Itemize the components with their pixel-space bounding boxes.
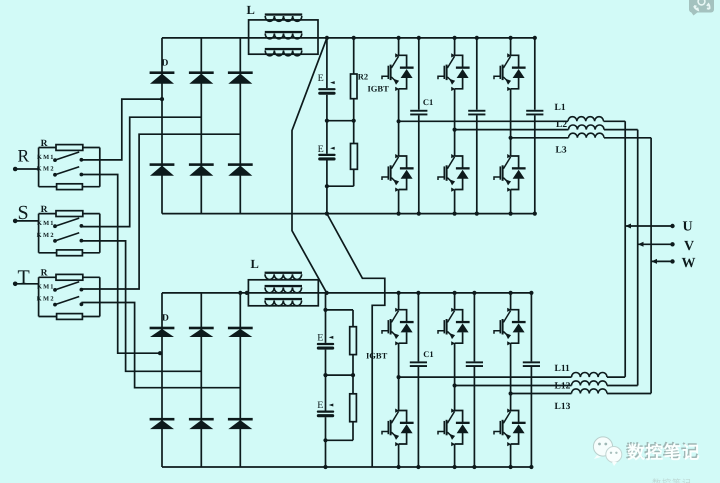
junction DC+ C1-2 (bottom) <box>472 291 476 295</box>
wire leg1 bottom (bottom) <box>398 444 400 467</box>
wire C1-3 upper (bottom) <box>530 293 532 362</box>
wire L11 to output bus <box>607 376 625 378</box>
junction DC- C1-3 (bottom) <box>529 465 533 469</box>
IGBT Q1H with diode (top inverter upper leg1) <box>382 53 414 91</box>
watermark WeChat logo bubbles <box>593 437 621 466</box>
wire tie0 E-R (bottom) <box>326 309 354 311</box>
wire DC- bus (bottom converter) <box>162 466 531 468</box>
junction DC+ bus leg3 (top) <box>509 36 513 40</box>
wire output bus W vertical <box>650 138 652 394</box>
wire R-branch upper (bottom) <box>352 310 354 327</box>
svg-text:L: L <box>247 3 255 17</box>
contactor block KM (R phase) <box>39 145 100 190</box>
wire L2 to output bus <box>604 129 638 131</box>
wire S-out2 to bottom bridge col2 <box>81 241 201 371</box>
svg-text:L: L <box>251 257 259 271</box>
wire top bridge column 1 <box>161 38 163 214</box>
choke winding row 2 (top L) <box>265 31 302 39</box>
junction DC- leg1 (bottom) <box>397 465 401 469</box>
wire T-out2 to bottom bridge col3 <box>81 303 240 388</box>
IGBT with diode (bottom inverter upper leg1) <box>382 308 414 346</box>
wire DC- link top-to-bottom converter <box>327 214 385 467</box>
wire DC+ link top-to-bottom converter <box>292 38 327 293</box>
terminal dot U <box>670 224 674 228</box>
wire output rail W (top) <box>511 137 569 139</box>
wire L13 to output bus <box>607 393 651 395</box>
junction DC+ C1-3 (bottom) <box>529 291 533 295</box>
wire C1-2 upper (bottom) <box>473 293 475 362</box>
electrolytic capacitor E (bottom lower) <box>317 404 334 418</box>
inductor L2 <box>569 125 605 130</box>
electrolytic capacitor E (bottom upper) <box>317 336 334 350</box>
input terminal R with wire <box>13 167 39 172</box>
svg-text:KM1: KM1 <box>37 220 54 227</box>
svg-text:R: R <box>41 139 48 149</box>
svg-text:W: W <box>682 256 696 271</box>
contactor switch KM1 (S-phase) <box>53 218 83 228</box>
svg-text:R: R <box>18 145 30 165</box>
wire leg2 to output rail (top) <box>454 89 456 130</box>
junction DC- bus leg1 (top) <box>397 212 401 216</box>
capacitor C1 leg2 (bottom) <box>466 361 483 367</box>
junction DC- C1-1 (top) <box>417 212 421 216</box>
wire R-branch upper (top) <box>353 38 355 74</box>
junction DC+ C1-1 (bottom) <box>416 291 420 295</box>
svg-text:S: S <box>18 202 29 224</box>
junction DC- bus leg2 (top) <box>453 212 457 216</box>
junction DC- leg2 (bottom) <box>453 465 457 469</box>
choke winding row 1 (bottom L) <box>265 272 302 280</box>
wire E-branch to lower cap (bottom) <box>325 375 327 410</box>
choke winding row 3 (bottom L) <box>265 298 302 306</box>
wire leg2 bottom (bottom) <box>454 444 456 467</box>
wire C1-1 lower (top) <box>418 115 420 213</box>
inductor L1 <box>568 117 604 122</box>
wire leg3 bottom (top) <box>510 190 512 214</box>
junction E-branch on DC- bus (top) <box>325 212 329 216</box>
IGBT Q2H with diode (top inverter upper leg2) <box>438 53 470 91</box>
wire U terminal <box>625 225 672 227</box>
svg-text:L1: L1 <box>555 103 566 113</box>
wire E-branch upper (top) <box>326 38 328 88</box>
electrolytic capacitor E (top lower) <box>318 147 335 161</box>
junction top bridge col1 input <box>160 97 164 101</box>
wire leg2 mid (bottom) <box>454 386 456 411</box>
wire output bus V vertical <box>637 130 639 386</box>
capacitor C1 leg3 (top) <box>526 110 543 116</box>
junction DC+ C1-2 (top) <box>475 36 479 40</box>
capacitor C1 leg1 (top) <box>410 110 427 116</box>
choke winding row 3 (top L) <box>265 48 302 56</box>
viewer toolbar icon (top right) <box>689 0 714 16</box>
svg-text:KM1: KM1 <box>37 154 54 161</box>
junction E-branch DC- (bottom) <box>323 465 327 469</box>
wire R-out1 to top bridge col1 <box>81 99 162 160</box>
svg-text:KM2: KM2 <box>37 166 54 173</box>
wire C1-2 lower (top) <box>476 115 478 213</box>
electrolytic capacitor E (top upper) <box>318 81 335 95</box>
wire leg1 bottom (top) <box>398 190 400 214</box>
contactor switch KM2 (S-phase) <box>53 233 83 243</box>
wire leg1 to output rail (top) <box>398 89 400 122</box>
wire leg1 top (bottom inverter) <box>398 293 400 310</box>
IGBT Q3H with diode (top inverter upper leg3) <box>494 53 526 91</box>
diode D2 top bridge upper col2 <box>189 71 214 83</box>
inductor L box (top) <box>249 20 318 54</box>
wire top DC+ bus (bottom converter) <box>162 292 531 294</box>
wire leg2 mid (top) <box>454 130 456 156</box>
choke winding row 2 (bottom L) <box>265 285 302 293</box>
wire leg3 top (bottom inverter) <box>510 293 512 310</box>
wire bottom bridge column 2 <box>200 293 202 467</box>
diode D1 top bridge upper col1 <box>150 71 175 83</box>
wire top bridge column 2 <box>200 38 202 214</box>
svg-text:KM1: KM1 <box>37 284 54 291</box>
capacitor C1 leg1 (bottom) <box>410 361 427 367</box>
wire leg3 to output rail (top) <box>510 89 512 138</box>
wire R-branch bottom (bottom) <box>352 422 354 441</box>
inductor L11 <box>572 373 608 378</box>
svg-text:E: E <box>318 144 324 155</box>
wire E-branch to lower cap (top) <box>326 121 328 154</box>
wire output bus U vertical <box>624 121 626 377</box>
diode D6 top bridge lower col3 <box>228 163 253 176</box>
junction DC+ bus leg2 (bottom) <box>453 291 457 295</box>
junction DC- C1-2 (top) <box>475 212 479 216</box>
svg-text:L2: L2 <box>556 120 567 130</box>
contactor block KM (S phase) <box>39 211 100 256</box>
wire T-out1 to top bridge col3 <box>81 134 240 289</box>
wire R-branch mid (top) <box>353 99 355 144</box>
wire leg2 top (top inverter) <box>454 38 456 55</box>
wire C1-3 lower (top) <box>534 115 536 213</box>
junction choke input DC+ (bottom) <box>245 291 249 295</box>
wire top bridge column 3 <box>239 38 241 214</box>
svg-text:R2: R2 <box>358 72 368 82</box>
svg-text:R: R <box>41 205 48 215</box>
resistor R2 (bottom upper) <box>350 327 357 355</box>
wire leg1 to rail (bottom) <box>398 343 400 377</box>
wire C1-2 lower (bottom) <box>473 367 475 467</box>
junction DC- bus leg3 (top) <box>509 212 513 216</box>
wire C1-1 upper (top) <box>418 38 420 110</box>
wire leg1 top (top inverter) <box>398 38 400 55</box>
wire E-branch mid (top) <box>326 95 328 121</box>
svg-text:R: R <box>41 269 48 279</box>
junction leg2/rail (bottom) <box>453 383 457 387</box>
inductor L13 <box>572 389 608 394</box>
svg-text:U: U <box>683 220 693 235</box>
wire output rail U (bottom) <box>399 376 572 378</box>
svg-text:L12: L12 <box>555 382 571 392</box>
junction leg3/rail (top) <box>509 136 513 140</box>
wire E-branch bottom (bottom) <box>325 417 327 467</box>
diode bottom bridge upper col3 <box>228 327 253 337</box>
junction leg2/rail (top) <box>453 128 457 132</box>
wire leg2 to rail (bottom) <box>454 343 456 385</box>
wire DC- bus (top converter) <box>162 213 535 215</box>
junction E/R tie2 (bottom) <box>323 438 327 442</box>
wire W terminal <box>651 260 672 262</box>
node U tap <box>625 224 631 229</box>
svg-text:数控笔记: 数控笔记 <box>627 443 700 463</box>
junction DC+ bus leg2 (top) <box>453 36 457 40</box>
junction bottom bridge col1 input <box>158 351 162 355</box>
node V tap <box>638 242 644 247</box>
IGBT with diode (bottom inverter lower leg2) <box>438 409 470 447</box>
svg-text:数控笔记: 数控笔记 <box>652 478 692 483</box>
contactor block KM (T phase) <box>39 274 100 319</box>
junction DC- C1-3 (top) <box>533 212 537 216</box>
wire L12 to output bus <box>607 385 638 387</box>
diode D4 top bridge lower col1 <box>150 163 175 176</box>
resistor R2 (top upper) <box>351 74 358 99</box>
junction DC+ bus leg3 (bottom) <box>509 291 513 295</box>
wire top DC+ bus (top converter) <box>162 37 535 39</box>
resistor (top lower bleeder) <box>351 144 358 170</box>
IGBT with diode (bottom inverter upper leg2) <box>438 308 470 346</box>
node W tap <box>651 259 657 264</box>
wire E-branch bottom (top) <box>326 161 328 214</box>
wire tie2 E-R (bottom) <box>326 439 354 441</box>
diode bottom bridge lower col1 <box>150 418 175 429</box>
junction R-branch hang (bottom) <box>323 308 327 312</box>
junction DC+ / E-branch (top) <box>325 36 329 40</box>
wire L3 to output bus <box>604 137 651 139</box>
junction DC- C1-1 (bottom) <box>416 465 420 469</box>
svg-text:V: V <box>684 239 694 254</box>
wire leg2 top (bottom inverter) <box>454 293 456 310</box>
wire output rail W (bottom) <box>511 393 572 395</box>
svg-text:E: E <box>317 333 323 344</box>
wire bottom bridge column 1 <box>161 293 163 467</box>
junction DC+ C1-1 (top) <box>417 36 421 40</box>
IGBT with diode (bottom inverter upper leg3) <box>494 308 526 346</box>
junction DC+ / E-branch (bottom) <box>325 291 329 295</box>
wire leg1 mid (bottom) <box>398 377 400 410</box>
wire S-out1 to top bridge col2 <box>81 117 201 226</box>
wire C1-2 upper (top) <box>476 38 478 110</box>
svg-text:D: D <box>162 314 169 324</box>
wire leg3 top (top inverter) <box>510 38 512 55</box>
junction R-branch tie1 (top) <box>352 119 356 123</box>
IGBT Q2L with diode (top inverter lower leg2) <box>438 154 470 192</box>
IGBT with diode (bottom inverter lower leg1) <box>382 409 414 447</box>
wire R-branch mid (bottom) <box>352 355 354 394</box>
wire E-branch upper (bottom) <box>325 293 327 343</box>
capacitor C1 leg3 (bottom) <box>523 361 540 367</box>
svg-text:D: D <box>162 59 169 69</box>
junction leg1/rail (bottom) <box>397 375 401 379</box>
wire leg1 mid (top) <box>398 121 400 156</box>
junction DC+ bus leg1 (bottom) <box>397 291 401 295</box>
wire C1-1 upper (bottom) <box>417 293 419 362</box>
wire E-branch mid (bottom) <box>325 350 327 376</box>
wire leg2 bottom (top) <box>454 190 456 214</box>
IGBT Q3L with diode (top inverter lower leg3) <box>494 154 526 192</box>
wire tie2 E-R (top) <box>327 185 354 187</box>
IGBT Q1L with diode (top inverter lower leg1) <box>382 154 414 192</box>
wire L1 to output bus <box>604 120 626 122</box>
resistor (bottom lower bleeder) <box>350 394 357 422</box>
svg-text:T: T <box>18 266 30 288</box>
wire output rail U (top) <box>399 120 568 122</box>
wire leg3 mid (top) <box>510 138 512 156</box>
wire output rail V (top) <box>455 129 569 131</box>
wire bottom bridge column 3 <box>239 293 241 467</box>
svg-text:E: E <box>317 400 323 411</box>
wire leg3 bottom (bottom) <box>510 444 512 467</box>
inductor L12 <box>572 381 608 386</box>
svg-text:KM2: KM2 <box>37 232 54 239</box>
terminal dot V <box>670 242 674 246</box>
svg-text:C1: C1 <box>423 97 433 107</box>
junction DC+ C1-3 (top) <box>533 36 537 40</box>
wire C1-3 upper (top) <box>534 38 536 110</box>
svg-text:IGBT: IGBT <box>368 84 390 94</box>
svg-text:C1: C1 <box>423 349 433 359</box>
wire leg3 to rail (bottom) <box>510 343 512 393</box>
wire R-branch bottom (top) <box>353 169 355 186</box>
junction col3 DC+ (bottom) <box>238 291 242 295</box>
wire output rail V (bottom) <box>455 385 572 387</box>
wire tie1 E-R (bottom) <box>326 374 354 376</box>
junction leg1/rail (top) <box>397 119 401 123</box>
inductor L box (bottom) <box>248 280 318 306</box>
contactor switch KM2 (R-phase) <box>53 167 83 177</box>
svg-text:E: E <box>318 73 324 84</box>
svg-text:L13: L13 <box>555 402 571 412</box>
terminal dot W <box>670 259 674 263</box>
wire leg3 mid (bottom) <box>510 394 512 411</box>
wire C1-1 lower (bottom) <box>417 367 419 467</box>
input terminal S with wire <box>13 219 39 224</box>
diode bottom bridge lower col2 <box>189 418 214 429</box>
wire V terminal <box>638 243 673 245</box>
choke winding row 1 (top L) <box>265 13 302 21</box>
IGBT with diode (bottom inverter lower leg3) <box>494 409 526 447</box>
contactor switch KM1 (T-phase) <box>53 282 83 292</box>
junction DC- leg3 (bottom) <box>509 465 513 469</box>
diode bottom bridge lower col3 <box>228 418 253 429</box>
svg-text:L11: L11 <box>555 364 571 374</box>
junction DC+ bus leg1 (top) <box>397 36 401 40</box>
wire R-out2 to bottom bridge col1 <box>81 175 162 354</box>
junction E/R tie1 (bottom) <box>323 373 327 377</box>
diode D3 top bridge upper col3 <box>228 71 253 83</box>
diode bottom bridge upper col1 <box>150 327 175 337</box>
svg-text:KM2: KM2 <box>37 296 54 303</box>
wire tie E-R branches (top) <box>327 120 354 122</box>
contactor switch KM1 (R-phase) <box>53 152 83 162</box>
wire C1-3 lower (bottom) <box>530 367 532 467</box>
junction leg3/rail (bottom) <box>509 391 513 395</box>
junction R tie1 (bottom) <box>351 373 355 377</box>
junction E/R tie1 (top) <box>325 119 329 123</box>
svg-text:L3: L3 <box>556 146 567 156</box>
diode bottom bridge upper col2 <box>189 327 214 337</box>
contactor switch KM2 (T-phase) <box>53 297 83 307</box>
junction E/R tie2 (top) <box>325 184 329 188</box>
capacitor C1 leg2 (top) <box>468 110 485 116</box>
diode D5 top bridge lower col2 <box>189 163 214 176</box>
input terminal T with wire <box>13 282 39 287</box>
inductor L3 <box>569 133 605 138</box>
junction DC- C1-2 (bottom) <box>472 465 476 469</box>
junction DC+ / R-branch (top) <box>352 36 356 40</box>
svg-text:IGBT: IGBT <box>366 351 388 361</box>
